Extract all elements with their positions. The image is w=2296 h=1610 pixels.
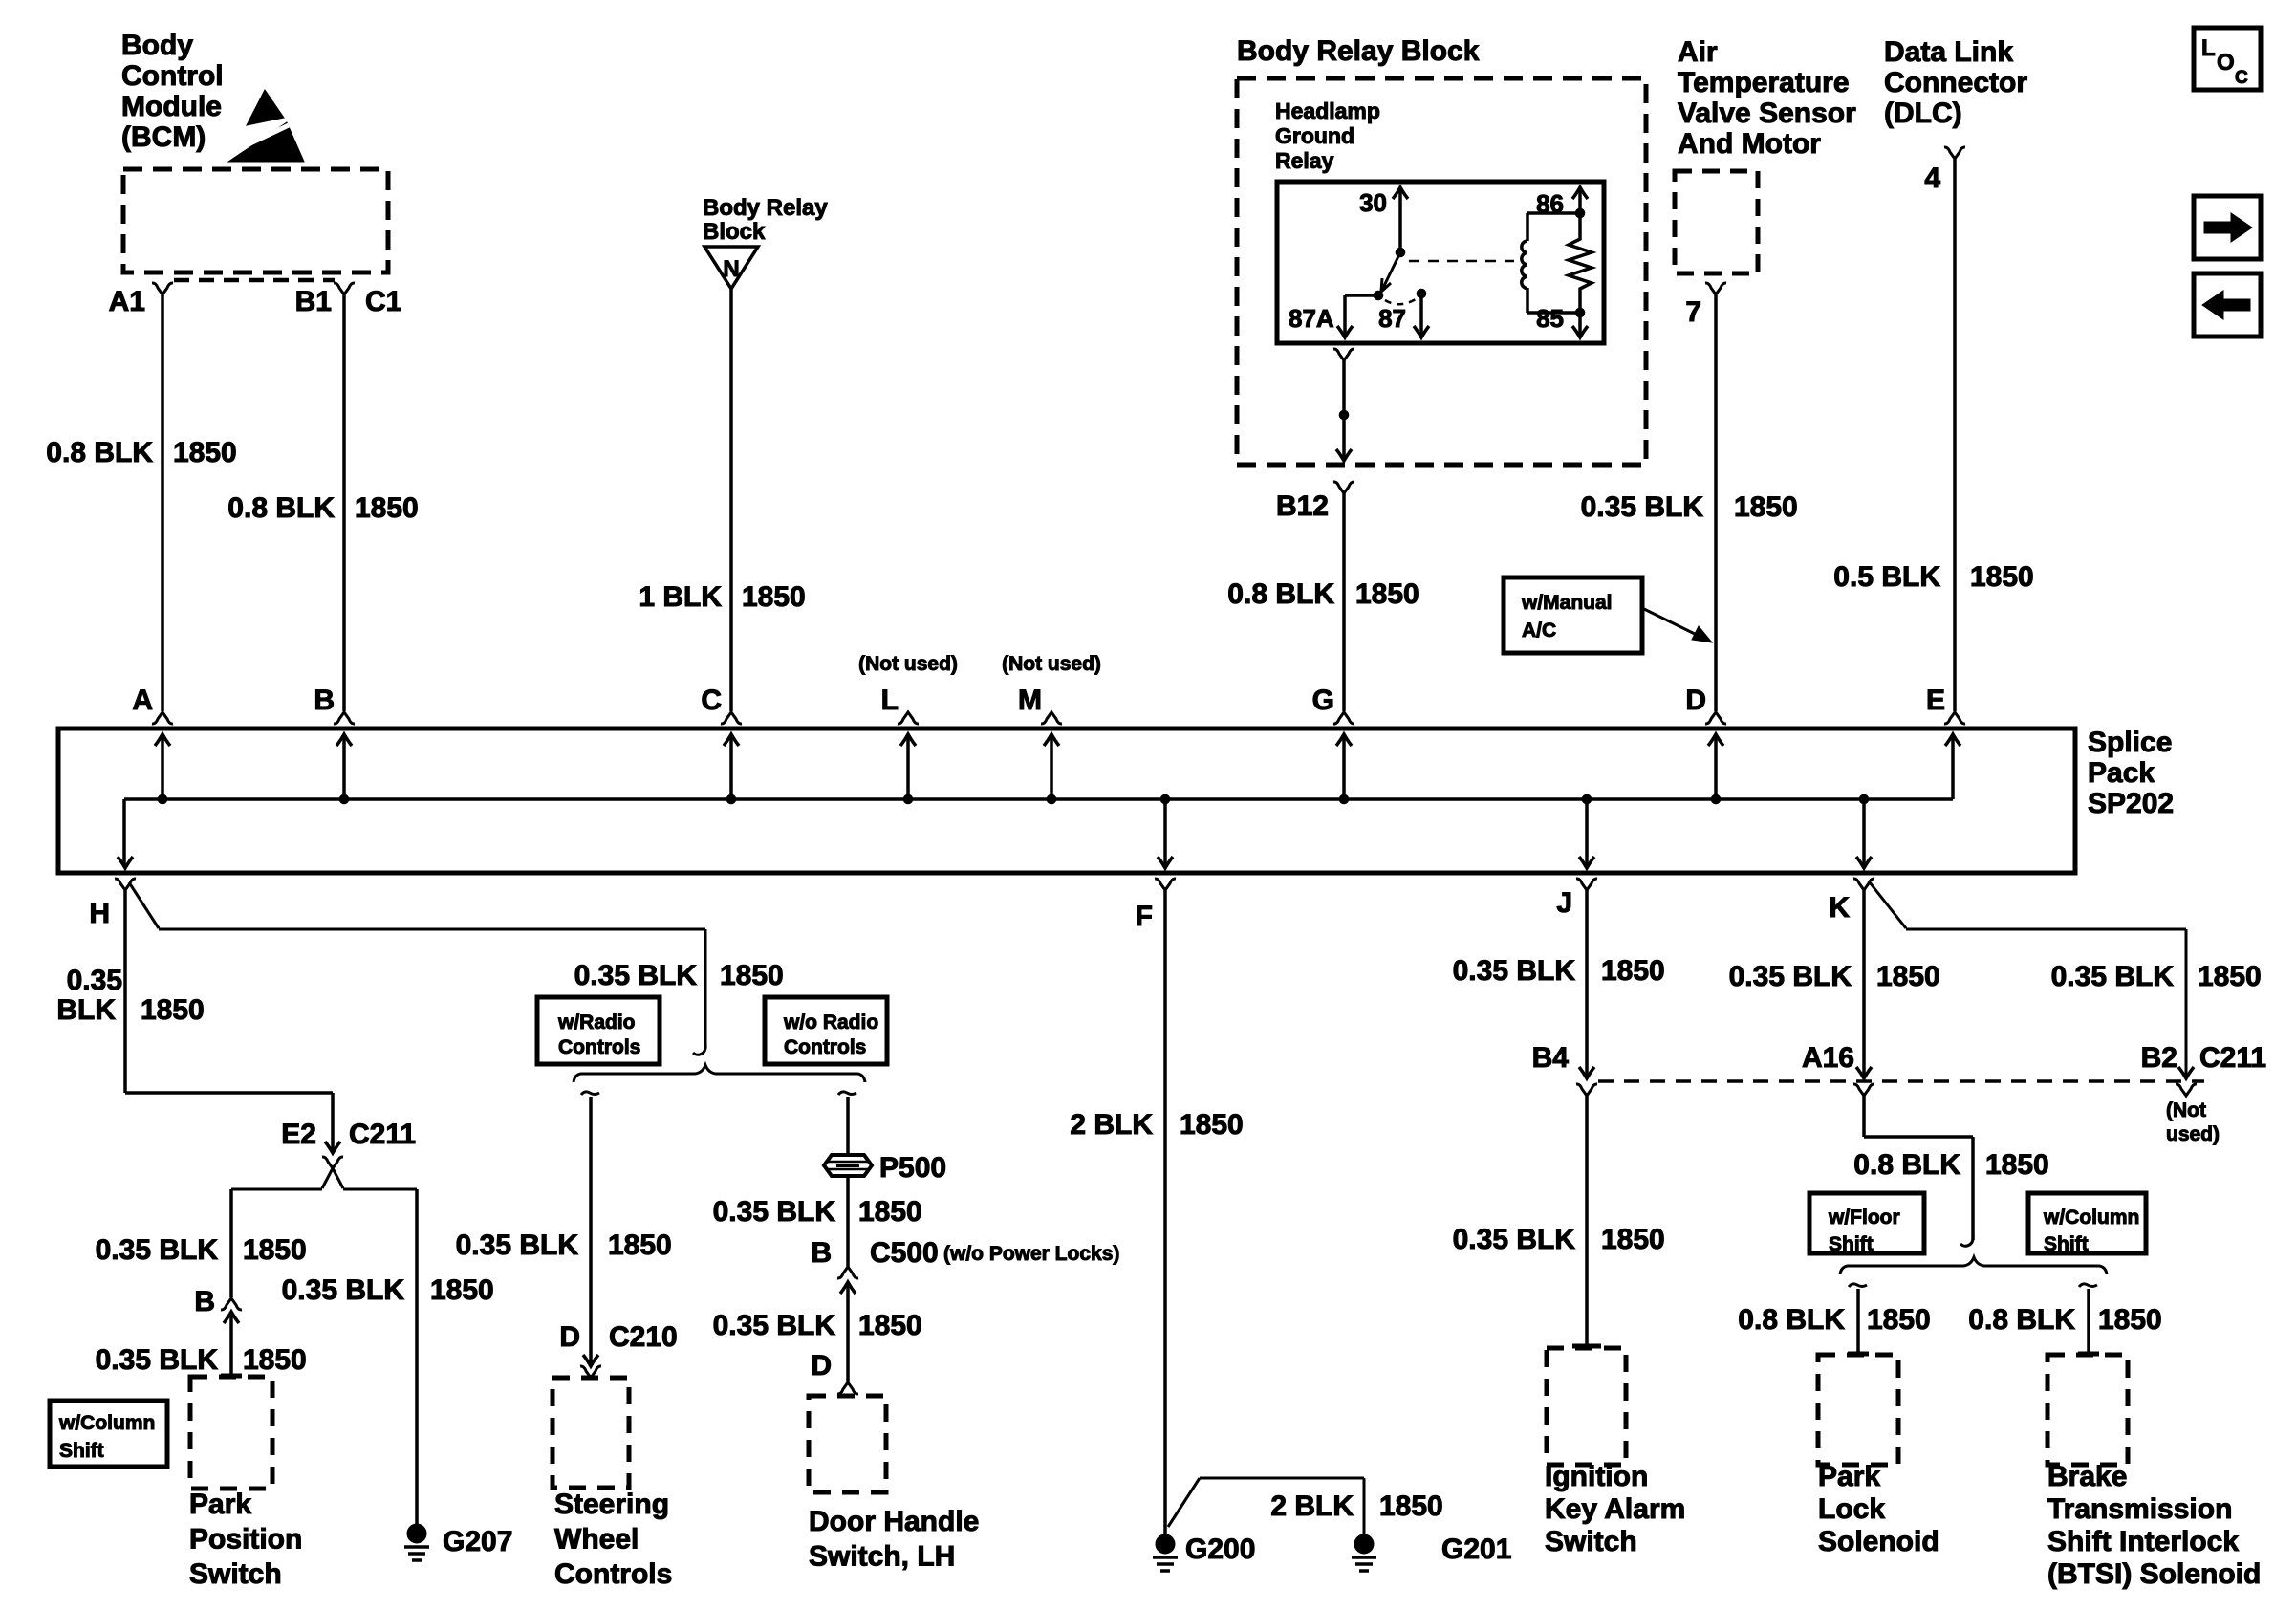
- connector M above splice pack: [1041, 712, 1062, 724]
- wire K upper (A16): [1862, 890, 1866, 1077]
- junction dot J: [1582, 794, 1592, 804]
- svg-text:M: M: [1018, 685, 1042, 716]
- svg-text:L: L: [2201, 35, 2216, 61]
- svg-text:85: 85: [1536, 304, 1564, 333]
- splice pack exit leg K: [1862, 799, 1866, 865]
- relay pin 86 terminal: [1578, 187, 1582, 213]
- svg-text:Wheel: Wheel: [554, 1524, 639, 1556]
- svg-text:w/Column: w/Column: [58, 1412, 155, 1434]
- svg-text:Transmission: Transmission: [2047, 1493, 2232, 1525]
- svg-text:1850: 1850: [742, 581, 806, 613]
- svg-text:(BTSI) Solenoid: (BTSI) Solenoid: [2047, 1558, 2261, 1590]
- wire to G207: [415, 1189, 419, 1526]
- svg-text:2 BLK: 2 BLK: [1070, 1109, 1153, 1141]
- svg-text:Air: Air: [1678, 36, 1718, 68]
- connector at DLC pin 4: [1944, 147, 1965, 159]
- svg-text:N: N: [723, 256, 739, 282]
- w/o Radio Controls option box: [765, 997, 887, 1064]
- svg-text:Steering: Steering: [554, 1489, 669, 1520]
- wire K branch horizontal to B2: [1906, 928, 2186, 931]
- w/Column Shift option box (right): [2028, 1193, 2146, 1253]
- wire G from B12 to splice pack: [1342, 493, 1346, 711]
- svg-text:(w/o Power Locks): (w/o Power Locks): [943, 1243, 1119, 1265]
- svg-text:D: D: [1685, 685, 1706, 716]
- svg-text:Brake: Brake: [2047, 1461, 2127, 1492]
- svg-text:Body Relay Block: Body Relay Block: [1237, 35, 1480, 67]
- w/Floor Shift option box: [1809, 1193, 1924, 1253]
- svg-text:1850: 1850: [141, 994, 205, 1026]
- svg-text:H: H: [89, 898, 110, 929]
- svg-text:C1: C1: [365, 286, 401, 317]
- wire C to splice pack C: [729, 289, 733, 711]
- svg-text:1850: 1850: [2198, 961, 2262, 992]
- wire P500 to C500: [846, 1176, 850, 1267]
- Ignition Key Alarm Switch dashed box: [1547, 1348, 1626, 1465]
- wire to BTSI solenoid: [2079, 1284, 2097, 1287]
- svg-text:0.35 BLK: 0.35 BLK: [1453, 955, 1576, 987]
- connector L above splice pack: [898, 712, 919, 724]
- connector H below splice pack: [115, 879, 136, 890]
- left-arrow page icon: [2194, 273, 2261, 337]
- wire C500 to door handle switch: [846, 1282, 850, 1384]
- svg-text:L: L: [881, 685, 899, 716]
- svg-text:w/Radio: w/Radio: [557, 1012, 636, 1033]
- svg-text:87A: 87A: [1289, 304, 1334, 333]
- svg-text:Shift: Shift: [59, 1440, 104, 1462]
- wire B1 to splice pack B: [342, 294, 346, 711]
- junction dot B: [339, 794, 349, 804]
- relay movable contact arm: [1383, 252, 1400, 288]
- connector K below splice pack: [1853, 879, 1874, 890]
- svg-text:Shift: Shift: [2044, 1233, 2089, 1255]
- ESD static-sensitive symbol: [247, 90, 284, 125]
- connector at BCM pins B1/C1: [334, 283, 355, 294]
- wire to park position switch (lower): [229, 1312, 233, 1374]
- svg-text:0.35 BLK: 0.35 BLK: [96, 1344, 219, 1376]
- relay contact 87 junction: [1417, 289, 1426, 298]
- wire H branch horizontal to radio brace: [159, 928, 705, 931]
- right-arrow page icon: [2194, 196, 2261, 259]
- shift options brace: [1840, 1257, 2107, 1274]
- svg-text:D: D: [811, 1350, 832, 1382]
- svg-text:1850: 1850: [858, 1196, 922, 1228]
- svg-text:1850: 1850: [1601, 955, 1665, 987]
- junction dot G: [1339, 794, 1349, 804]
- svg-text:G207: G207: [443, 1526, 512, 1557]
- svg-text:0.35 BLK: 0.35 BLK: [96, 1234, 219, 1266]
- connector at door handle switch: [837, 1382, 858, 1394]
- relay common pole junction: [1396, 248, 1405, 257]
- svg-text:G: G: [1312, 685, 1334, 716]
- svg-text:Ground: Ground: [1275, 123, 1354, 148]
- svg-text:E: E: [1926, 685, 1945, 716]
- relay pin 85 terminal: [1578, 313, 1582, 337]
- junction dot K: [1859, 794, 1869, 804]
- wire B2 down: [2185, 929, 2188, 1077]
- coil node 85 junction: [1575, 308, 1585, 317]
- wire D to splice pack: [1714, 294, 1718, 711]
- svg-text:J: J: [1556, 887, 1572, 919]
- svg-text:And Motor: And Motor: [1678, 128, 1821, 160]
- svg-text:1850: 1850: [1734, 491, 1798, 523]
- svg-text:A1: A1: [109, 286, 145, 317]
- svg-text:Solenoid: Solenoid: [1818, 1526, 1939, 1557]
- svg-text:A16: A16: [1802, 1042, 1854, 1074]
- svg-text:1850: 1850: [1601, 1224, 1665, 1255]
- svg-text:0.35 BLK: 0.35 BLK: [713, 1310, 836, 1341]
- Steering Wheel Controls dashed box: [552, 1378, 629, 1488]
- svg-text:(Not used): (Not used): [858, 653, 958, 675]
- svg-text:G200: G200: [1185, 1534, 1255, 1565]
- svg-text:0.8 BLK: 0.8 BLK: [227, 492, 335, 524]
- svg-text:1850: 1850: [243, 1234, 307, 1266]
- connector C above splice pack: [721, 712, 742, 724]
- svg-text:0.35 BLK: 0.35 BLK: [1581, 491, 1704, 523]
- svg-text:0.8 BLK: 0.8 BLK: [46, 437, 153, 468]
- svg-text:0.35 BLK: 0.35 BLK: [2051, 961, 2175, 992]
- relay K (headlamp ground relay) box: [1277, 182, 1604, 343]
- svg-text:1 BLK: 1 BLK: [639, 581, 722, 613]
- wire to steering wheel controls (hook): [581, 1092, 599, 1095]
- connector B12 of body relay block: [1333, 482, 1354, 493]
- svg-text:w/Manual: w/Manual: [1521, 592, 1613, 614]
- svg-text:Data Link: Data Link: [1884, 36, 2013, 68]
- connector J below splice pack: [1576, 879, 1597, 890]
- svg-text:(DLC): (DLC): [1884, 98, 1962, 129]
- splice pack internal bus wire: [124, 797, 1953, 801]
- svg-text:1850: 1850: [1180, 1109, 1244, 1141]
- inline connector C500: [837, 1267, 858, 1278]
- svg-text:B1: B1: [295, 286, 332, 317]
- svg-text:Body: Body: [121, 30, 193, 61]
- svg-text:1850: 1850: [1876, 961, 1940, 992]
- in-line splice P500: [824, 1155, 872, 1176]
- wire down to radio brace: [704, 929, 707, 1049]
- svg-text:(BCM): (BCM): [121, 121, 206, 153]
- connector at BCM pin A1: [152, 283, 173, 294]
- splice pack exit leg J: [1585, 799, 1589, 865]
- connector D above splice pack: [1705, 712, 1726, 724]
- w/Column Shift option box (left): [50, 1401, 167, 1467]
- wire to park lock solenoid: [1849, 1284, 1867, 1287]
- svg-text:BLK: BLK: [56, 994, 116, 1026]
- w/Manual A/C option box: [1504, 577, 1642, 653]
- wire split left at C211: [231, 1188, 322, 1191]
- svg-text:A/C: A/C: [1522, 620, 1556, 642]
- svg-text:0.35: 0.35: [67, 965, 122, 996]
- svg-text:1850: 1850: [355, 492, 419, 524]
- svg-text:1850: 1850: [858, 1310, 922, 1341]
- svg-text:Temperature: Temperature: [1678, 67, 1850, 98]
- splice pack entry leg A: [161, 736, 164, 799]
- svg-text:Door Handle: Door Handle: [809, 1506, 979, 1537]
- svg-text:7: 7: [1685, 296, 1701, 328]
- svg-text:B: B: [811, 1237, 832, 1269]
- wire E to splice pack: [1953, 159, 1957, 711]
- svg-text:Ignition: Ignition: [1545, 1461, 1648, 1492]
- svg-text:Switch: Switch: [189, 1558, 282, 1590]
- wire 87 stub: [1419, 294, 1423, 337]
- svg-text:Position: Position: [189, 1524, 302, 1556]
- Brake Transmission Shift Interlock Solenoid dashed box: [2047, 1355, 2128, 1465]
- svg-text:Switch, LH: Switch, LH: [809, 1541, 955, 1573]
- dashed arc 87A-87: [1385, 299, 1416, 304]
- connector B2 at C211 (not used): [2176, 1084, 2197, 1096]
- wire to door handle switch (hook): [838, 1092, 856, 1095]
- svg-text:C: C: [701, 685, 722, 716]
- svg-text:C211: C211: [2199, 1042, 2266, 1074]
- svg-text:B: B: [314, 685, 335, 716]
- junction on 87A wire: [1339, 410, 1349, 420]
- svg-text:0.35 BLK: 0.35 BLK: [574, 960, 698, 991]
- svg-text:0.8 BLK: 0.8 BLK: [1738, 1304, 1845, 1336]
- Park Position Switch dashed box: [190, 1377, 272, 1489]
- svg-text:1850: 1850: [173, 437, 237, 468]
- svg-text:w/o Radio: w/o Radio: [783, 1012, 878, 1033]
- svg-text:0.35 BLK: 0.35 BLK: [1729, 961, 1852, 992]
- svg-text:SP202: SP202: [2088, 788, 2174, 819]
- wire A16 to shift brace: [1862, 1093, 1866, 1137]
- relay pin 30 terminal: [1398, 187, 1402, 252]
- wire A1 to splice pack A: [161, 294, 164, 711]
- LOC page icon: [2194, 28, 2261, 90]
- svg-text:B2: B2: [2141, 1042, 2177, 1074]
- svg-text:w/Column: w/Column: [2043, 1207, 2139, 1229]
- svg-text:1850: 1850: [430, 1274, 494, 1306]
- svg-text:0.5 BLK: 0.5 BLK: [1833, 561, 1940, 593]
- splice pack exit leg F: [1163, 799, 1167, 865]
- junction dot C: [726, 794, 736, 804]
- svg-text:B4: B4: [1532, 1042, 1570, 1074]
- svg-text:1850: 1850: [1970, 561, 2034, 593]
- svg-text:1850: 1850: [1355, 578, 1419, 610]
- junction dot F: [1160, 794, 1170, 804]
- radio options brace: [574, 1065, 865, 1082]
- svg-text:Controls: Controls: [784, 1036, 866, 1058]
- connector B4 at C211: [1576, 1084, 1597, 1096]
- w/Manual A/C pointer arrow: [1642, 608, 1699, 636]
- svg-text:87: 87: [1378, 304, 1406, 333]
- svg-text:E2: E2: [281, 1119, 316, 1150]
- svg-text:1850: 1850: [1985, 1149, 2049, 1181]
- svg-text:1850: 1850: [2098, 1304, 2162, 1336]
- svg-text:Shift Interlock: Shift Interlock: [2047, 1526, 2239, 1557]
- wire to park position switch (upper): [229, 1189, 233, 1297]
- svg-text:Relay: Relay: [1275, 148, 1334, 173]
- svg-text:Controls: Controls: [558, 1036, 640, 1058]
- svg-text:C500: C500: [870, 1237, 939, 1269]
- wire K diagonal branch: [1870, 882, 1906, 928]
- svg-text:B12: B12: [1276, 490, 1329, 522]
- svg-text:0.8 BLK: 0.8 BLK: [1227, 578, 1334, 610]
- wire J upper: [1585, 890, 1589, 1077]
- splice pack entry leg M: [1050, 736, 1053, 799]
- wire J lower to ignition key alarm switch: [1585, 1093, 1589, 1344]
- svg-text:Switch: Switch: [1545, 1526, 1637, 1557]
- svg-text:0.8 BLK: 0.8 BLK: [1968, 1304, 2075, 1336]
- wire branch to G201: [1168, 1478, 1200, 1527]
- svg-text:1850: 1850: [1867, 1304, 1931, 1336]
- connector E2 C211 crossing: [322, 1157, 343, 1168]
- w/Radio Controls option box: [537, 997, 660, 1064]
- svg-text:Lock: Lock: [1818, 1493, 1885, 1525]
- connector at ATV pin 7: [1705, 283, 1726, 294]
- svg-text:1850: 1850: [720, 960, 784, 991]
- svg-text:Park: Park: [189, 1489, 251, 1520]
- coil node 86 junction: [1575, 208, 1585, 218]
- svg-text:(Not: (Not: [2166, 1099, 2206, 1121]
- ground G201: [1354, 1534, 1374, 1554]
- wire F to G200: [1163, 890, 1167, 1535]
- svg-text:30: 30: [1359, 188, 1387, 217]
- svg-text:F: F: [1136, 901, 1153, 932]
- svg-text:0.8 BLK: 0.8 BLK: [1853, 1149, 1960, 1181]
- svg-text:K: K: [1829, 892, 1850, 924]
- svg-text:w/Floor: w/Floor: [1828, 1207, 1900, 1229]
- wire 87A to bottom: [1345, 294, 1378, 297]
- svg-text:A: A: [132, 685, 153, 716]
- connector C211 dashed wire: [1598, 1079, 2204, 1083]
- Splice Pack SP202 box: [58, 729, 2075, 873]
- wire 87A inside relay block: [1342, 360, 1346, 460]
- svg-text:Valve Sensor: Valve Sensor: [1678, 98, 1856, 129]
- svg-text:C210: C210: [609, 1321, 678, 1353]
- splice pack entry leg E (bus end): [1951, 736, 1955, 799]
- splice pack entry leg D: [1714, 736, 1718, 799]
- splice pack entry leg B: [342, 736, 346, 799]
- connector E above splice pack: [1944, 712, 1965, 724]
- connector A16 at C211: [1853, 1084, 1874, 1096]
- svg-text:B: B: [194, 1286, 215, 1317]
- svg-text:(Not used): (Not used): [1002, 653, 1101, 675]
- connector G above splice pack: [1333, 712, 1354, 724]
- wire H down-leg: [123, 890, 127, 1093]
- svg-text:0.35 BLK: 0.35 BLK: [713, 1196, 836, 1228]
- junction dot M: [1047, 794, 1056, 804]
- svg-text:0.35 BLK: 0.35 BLK: [282, 1274, 405, 1306]
- Body Relay Block N triangle: [704, 247, 758, 289]
- relay contact 87A junction: [1374, 291, 1383, 300]
- splice pack entry leg G: [1342, 736, 1346, 799]
- junction dot D: [1711, 794, 1721, 804]
- svg-text:1850: 1850: [1379, 1490, 1443, 1522]
- svg-text:0.35 BLK: 0.35 BLK: [456, 1229, 579, 1261]
- BCM dashed box: [123, 169, 388, 272]
- ground G200: [1156, 1534, 1175, 1554]
- relay resistor: [1569, 213, 1592, 313]
- svg-text:2 BLK: 2 BLK: [1270, 1490, 1354, 1522]
- inline connector at B: [221, 1298, 242, 1310]
- junction dot L: [903, 794, 913, 804]
- splice pack entry leg L: [906, 736, 910, 799]
- svg-text:Body Relay: Body Relay: [703, 195, 828, 221]
- connector A above splice pack: [152, 712, 173, 724]
- svg-text:P500: P500: [879, 1152, 946, 1184]
- svg-text:Shift: Shift: [1829, 1233, 1874, 1255]
- svg-text:Module: Module: [121, 91, 222, 122]
- svg-text:Block: Block: [703, 219, 766, 245]
- svg-text:86: 86: [1536, 189, 1564, 218]
- junction dot A: [158, 794, 167, 804]
- svg-text:0.35 BLK: 0.35 BLK: [1453, 1224, 1576, 1255]
- svg-text:Connector: Connector: [1884, 67, 2027, 98]
- svg-text:4: 4: [1924, 163, 1940, 194]
- svg-text:D: D: [559, 1321, 580, 1353]
- svg-text:Park: Park: [1818, 1461, 1880, 1492]
- Park Lock Solenoid dashed box: [1818, 1355, 1898, 1465]
- svg-text:Control: Control: [121, 60, 224, 92]
- svg-text:O: O: [2217, 50, 2235, 76]
- svg-text:Splice: Splice: [2088, 727, 2172, 758]
- svg-text:C: C: [2235, 68, 2248, 88]
- ground G207: [407, 1524, 426, 1543]
- wire H elbow to E2: [125, 1091, 333, 1095]
- svg-text:C211: C211: [349, 1119, 416, 1150]
- splice pack entry leg C: [729, 736, 733, 799]
- wire H branch diagonal: [129, 882, 159, 928]
- Body Relay Block dashed box: [1237, 78, 1646, 465]
- svg-text:G201: G201: [1441, 1534, 1511, 1565]
- wire split right at C211: [343, 1188, 417, 1191]
- air temperature valve sensor dashed box: [1675, 171, 1758, 273]
- connector B above splice pack: [334, 712, 355, 724]
- svg-text:Pack: Pack: [2088, 757, 2155, 789]
- Door Handle Switch dashed box: [809, 1396, 886, 1492]
- connector below relay 87A: [1333, 349, 1354, 360]
- connector F below splice pack: [1155, 879, 1176, 890]
- splice pack exit leg H (bus left end): [122, 799, 126, 865]
- BCM connector strip dashed line: [174, 278, 335, 283]
- svg-text:1850: 1850: [243, 1344, 307, 1376]
- svg-text:Headlamp: Headlamp: [1275, 98, 1380, 123]
- svg-text:used): used): [2166, 1123, 2220, 1145]
- connector C210: [583, 1355, 598, 1366]
- svg-text:1850: 1850: [608, 1229, 672, 1261]
- svg-text:Controls: Controls: [554, 1558, 672, 1590]
- relay coil-switch dashed link: [1409, 260, 1514, 263]
- relay coil: [1527, 211, 1580, 215]
- svg-text:Key Alarm: Key Alarm: [1545, 1493, 1685, 1525]
